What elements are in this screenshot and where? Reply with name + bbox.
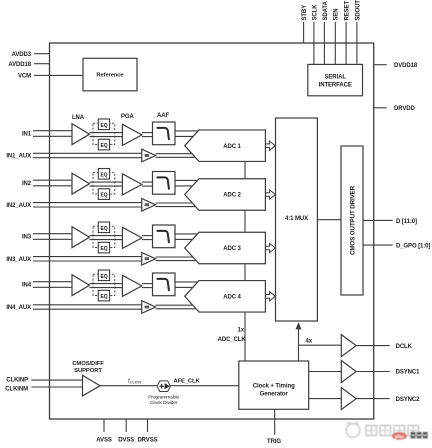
svg-text:IN2_AUX: IN2_AUX xyxy=(6,203,31,209)
svg-text:fCLKIN: fCLKIN xyxy=(128,379,141,385)
svg-text:CLKINP: CLKINP xyxy=(6,378,28,384)
svg-text:CLKINM: CLKINM xyxy=(5,387,28,393)
svg-text:AFE_CLK: AFE_CLK xyxy=(174,379,201,385)
svg-text:STBY: STBY xyxy=(302,5,308,21)
svg-text:DSYNC1: DSYNC1 xyxy=(396,370,421,376)
svg-text:php: php xyxy=(395,434,404,439)
svg-text:D_GPO [1:0]: D_GPO [1:0] xyxy=(396,244,430,250)
svg-text:IN4_AUX: IN4_AUX xyxy=(6,305,31,311)
svg-text:SUPPORT: SUPPORT xyxy=(74,368,102,374)
svg-text:DVSS: DVSS xyxy=(118,437,134,443)
svg-text:IN4: IN4 xyxy=(22,283,32,289)
svg-text:DCLK: DCLK xyxy=(396,344,413,350)
svg-text:DRVSS: DRVSS xyxy=(137,437,157,443)
svg-text:EQ: EQ xyxy=(100,193,107,199)
svg-text:ADC 2: ADC 2 xyxy=(223,193,241,199)
svg-text:EQ: EQ xyxy=(100,172,107,178)
svg-text:AAF: AAF xyxy=(157,113,169,119)
svg-text:Clock + Timing: Clock + Timing xyxy=(253,382,295,389)
svg-text:SEN: SEN xyxy=(334,8,340,20)
svg-text:Generator: Generator xyxy=(260,391,289,398)
svg-text:CMOS/DIFF: CMOS/DIFF xyxy=(72,361,104,367)
svg-text:SDATA: SDATA xyxy=(323,0,329,20)
svg-text:RESET: RESET xyxy=(345,1,351,21)
svg-text:CMOS OUTPUT DRIVER: CMOS OUTPUT DRIVER xyxy=(350,185,357,255)
svg-text:4x: 4x xyxy=(306,338,313,344)
svg-text:4:1 MUX: 4:1 MUX xyxy=(285,216,308,222)
svg-text:SCLK: SCLK xyxy=(312,4,318,21)
svg-text:TRIG: TRIG xyxy=(267,439,281,445)
svg-text:ADC 3: ADC 3 xyxy=(223,246,241,252)
svg-text:ADC 1: ADC 1 xyxy=(223,144,241,150)
svg-text:IN2: IN2 xyxy=(22,181,32,187)
svg-text:VCM: VCM xyxy=(18,74,31,80)
svg-text:PGA: PGA xyxy=(121,114,134,120)
svg-text:ADC 4: ADC 4 xyxy=(223,294,241,300)
svg-text:D [11:0]: D [11:0] xyxy=(396,219,417,225)
svg-text:EQ: EQ xyxy=(100,143,107,149)
svg-text:INTERFACE: INTERFACE xyxy=(319,83,352,89)
svg-text:ADC_CLK: ADC_CLK xyxy=(218,337,247,343)
svg-text:IN3: IN3 xyxy=(22,235,32,241)
svg-text:EQ: EQ xyxy=(100,123,107,129)
svg-text:Reference: Reference xyxy=(96,73,124,79)
svg-text:IN1_AUX: IN1_AUX xyxy=(6,154,31,160)
svg-text:Clock Divider: Clock Divider xyxy=(150,400,178,406)
svg-text:Programmable: Programmable xyxy=(148,394,179,400)
svg-text:EQ: EQ xyxy=(100,246,107,252)
svg-text:DSYNC2: DSYNC2 xyxy=(396,397,421,403)
svg-text:EQ: EQ xyxy=(100,274,107,280)
svg-text:AVSS: AVSS xyxy=(96,437,112,443)
svg-text:EQ: EQ xyxy=(100,226,107,232)
svg-text:DVDD18: DVDD18 xyxy=(394,63,418,69)
svg-text:SDOUT: SDOUT xyxy=(355,0,361,21)
svg-text:DRVDD: DRVDD xyxy=(394,106,415,112)
svg-text:AVDD18: AVDD18 xyxy=(8,62,31,68)
svg-text:LNA: LNA xyxy=(72,115,85,121)
svg-text:IN1: IN1 xyxy=(22,132,32,138)
svg-text:SERIAL: SERIAL xyxy=(324,75,346,81)
svg-text:EQ: EQ xyxy=(100,294,107,300)
svg-text:1x: 1x xyxy=(238,328,245,334)
svg-text:IN3_AUX: IN3_AUX xyxy=(6,257,31,263)
svg-text:AVDD3: AVDD3 xyxy=(12,52,32,58)
